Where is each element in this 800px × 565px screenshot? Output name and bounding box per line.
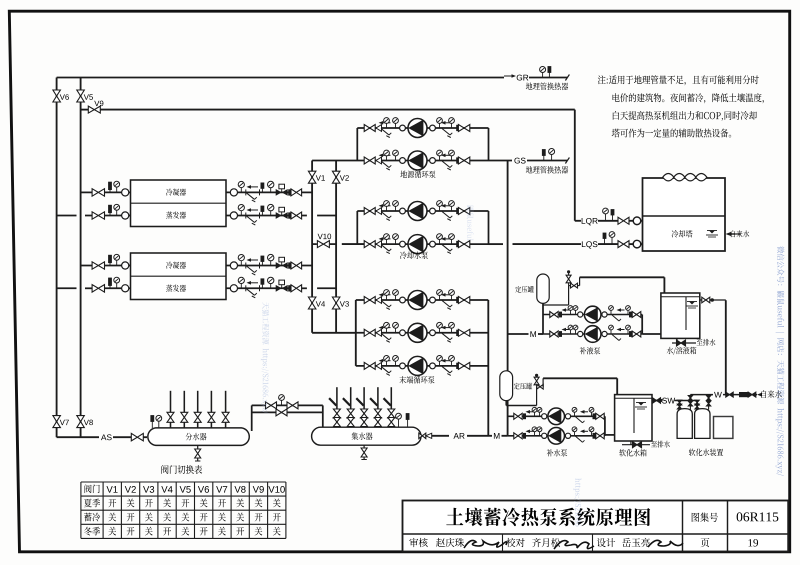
wire left riser B (V5/V8)	[80, 78, 82, 438]
label evaporator 1	[166, 211, 172, 218]
wire bypass riser left	[251, 405, 253, 431]
wire G5 row1 pipe	[508, 415, 605, 417]
node GS label	[514, 158, 519, 164]
softener cylinder 2	[695, 409, 710, 439]
solution tank drain	[676, 338, 678, 343]
valve V9	[88, 106, 94, 113]
wire condenser2 outlet piping	[226, 265, 291, 267]
wire G2 row2 pipe	[364, 243, 488, 245]
label valve switch table title	[161, 465, 168, 474]
flexible joint LQR	[629, 220, 643, 222]
valve table row 夏季	[84, 499, 92, 508]
valve V2	[332, 171, 340, 177]
valve V3	[332, 297, 340, 303]
signature checker	[554, 541, 594, 549]
wire G5 right vertical	[604, 416, 606, 436]
wire tank2 to safety line	[505, 400, 507, 405]
wire evaporator1 inlet piping	[57, 215, 77, 217]
wire evaporator2 inlet piping	[57, 287, 77, 289]
float valve (solution tank)	[700, 299, 726, 301]
wire M line to G4	[508, 333, 529, 335]
gauge on GR line	[542, 72, 544, 78]
label makeup water pumps	[547, 449, 553, 456]
wire G4 left header	[542, 304, 544, 335]
cooling tower box	[643, 178, 726, 251]
pump branch G3-1 terminal loop pump	[364, 297, 370, 304]
tap water inlet to tower	[731, 233, 741, 235]
label cooling water pumps	[400, 251, 407, 259]
wire condenser1 outlet piping	[226, 191, 291, 193]
label tap water (W line)	[761, 390, 766, 398]
label V1	[316, 175, 321, 180]
softener cyl2 stubs	[696, 401, 698, 410]
softener cylinder 1	[677, 409, 692, 439]
valve V10	[317, 241, 323, 248]
label ground HX (GS)	[526, 166, 533, 173]
wire G3 right vertical to AR	[487, 300, 489, 436]
wire G1 row2 pipe	[364, 160, 488, 162]
wire SW line	[652, 400, 663, 402]
wire W line	[690, 394, 713, 396]
label reviewer	[409, 538, 418, 547]
pressure tank 1	[537, 274, 549, 303]
thermometer on collector	[407, 420, 409, 428]
wire G2 row1 pipe	[357, 210, 488, 212]
wire V2 vertical	[335, 161, 337, 333]
pump branch G3-2 terminal loop pump	[364, 329, 370, 336]
softener cyl1 stubs	[679, 401, 681, 410]
valve V1	[308, 171, 316, 177]
wire AR line	[419, 435, 426, 437]
flexible joint LQS	[629, 243, 643, 245]
label softener unit	[689, 449, 696, 456]
gauge on GS line	[551, 154, 553, 161]
wire G4 row1 pipe	[543, 314, 642, 316]
label V6	[60, 94, 65, 99]
wire float to W line	[725, 300, 727, 394]
label atlas number 06R115	[737, 512, 743, 521]
gauge on LQR line	[605, 213, 607, 221]
label evaporator 2	[166, 285, 172, 292]
label distributor	[186, 433, 193, 441]
wire G4 row2 to tank	[642, 333, 661, 335]
label page number 19	[748, 539, 752, 546]
note text	[598, 75, 606, 84]
wire G2 left vertical	[356, 211, 358, 244]
label to drain (softened tank)	[651, 441, 657, 447]
wire G1 right vertical	[488, 128, 490, 161]
label ground HX (GR)	[526, 83, 533, 90]
valve V4	[308, 297, 316, 303]
label water/solution tank	[667, 347, 674, 354]
wire V1 vertical	[311, 161, 313, 333]
thermometer on LQS line	[604, 239, 606, 245]
pump branch G5-2 makeup water pump	[514, 433, 518, 439]
label V2	[340, 175, 345, 180]
water meter on W line	[726, 392, 730, 397]
node GR label	[517, 75, 522, 81]
thermometer on distributor	[151, 422, 153, 429]
valve bypass 1b (PD valve)	[287, 402, 293, 409]
label condenser 2	[166, 262, 172, 269]
label pressure tank 2	[514, 383, 520, 390]
node M label (G4)	[530, 331, 536, 337]
wire G2 feed after gap	[342, 243, 365, 245]
label checker	[506, 538, 515, 547]
safety vent cluster G5	[536, 376, 538, 387]
pump branch G1-1 ground loop pump	[364, 125, 370, 132]
wire G1 left vertical	[356, 128, 358, 161]
watermark vertical right (blue)	[776, 246, 785, 476]
valve bypass 2	[276, 409, 282, 416]
wire top line to solution tank	[580, 276, 665, 278]
wire GS line	[489, 160, 513, 162]
valve on AS line	[131, 433, 137, 441]
valve on LQS line	[618, 241, 624, 248]
thermometer on GS line	[543, 156, 545, 161]
end tick GS	[565, 158, 569, 164]
label V4	[316, 301, 321, 306]
softened tank drain	[630, 441, 632, 445]
watermark vertical mid (blue)	[573, 478, 581, 526]
valve switch table grid	[81, 481, 286, 483]
tap water arrow (W line)	[757, 393, 762, 397]
collector risers	[336, 387, 338, 427]
valve bypass 1a	[266, 402, 272, 409]
distributor risers	[170, 391, 172, 428]
label V10	[318, 234, 323, 239]
wire vertical to LQR	[574, 110, 576, 221]
softened water tank	[615, 395, 652, 441]
wire top line to softened tank	[543, 377, 617, 379]
pump branch G2-1 cooling water pump	[364, 208, 370, 215]
softener salt box	[714, 417, 733, 439]
level gauge in solution tank	[685, 297, 687, 330]
pressure tank 2	[500, 371, 513, 401]
wire G4 row2 pipe	[543, 333, 642, 335]
wire long vertical make-up line	[507, 161, 509, 372]
label collector	[352, 432, 359, 440]
wire bypass riser right	[322, 405, 324, 427]
wire G4 right vertical	[641, 315, 643, 335]
wire AR to M to long vertical	[489, 435, 493, 437]
node AS label	[101, 434, 106, 440]
wire G3 row2 pipe	[356, 332, 489, 334]
wire V9 line	[81, 109, 89, 111]
pump branch G4-1 makeup liquid pump	[550, 312, 554, 318]
wire GR top line	[57, 77, 504, 79]
label makeup liquid pumps	[580, 347, 586, 354]
flow arrow on GR line	[504, 75, 512, 77]
label designer	[597, 538, 606, 547]
label pressure tank 1	[515, 286, 521, 293]
valve V6	[53, 90, 61, 96]
label cooling tower	[672, 230, 679, 238]
label drawing title	[446, 508, 463, 525]
chiller unit 2 box	[131, 253, 227, 300]
distributor vessel	[148, 428, 249, 446]
wire condenser2 inlet piping	[81, 265, 93, 267]
wire G3 row3 pipe	[356, 365, 489, 367]
label V7	[60, 420, 65, 425]
label atlas no field	[692, 513, 700, 522]
wire condenser1 inlet piping	[81, 191, 93, 193]
wire LQR line	[575, 220, 581, 222]
watermark vertical upper-mid (blue)	[467, 205, 474, 240]
gauge on bypass	[281, 400, 283, 406]
end tick GR	[565, 75, 569, 81]
signature designer	[648, 540, 683, 547]
wire G5 row2 pipe (AR continuation)	[508, 435, 605, 437]
node W label	[714, 392, 722, 398]
label condenser 1	[166, 188, 172, 195]
valve V5	[77, 90, 85, 96]
wire LQS line	[489, 243, 504, 245]
level gauge in softened tank	[633, 398, 635, 433]
wire G3 row1 pipe	[356, 299, 489, 301]
label softened water tank	[619, 449, 626, 456]
node LQR label	[582, 218, 586, 224]
cooling tower fans	[663, 174, 674, 181]
pump branch G3-3 terminal loop pump	[364, 362, 370, 369]
water level symbol in tower	[707, 230, 717, 232]
label to drain (solution tank)	[697, 339, 703, 345]
distributor drain valve	[197, 445, 199, 461]
label tap water (tower)	[731, 230, 735, 237]
chiller unit 1 box	[131, 180, 227, 227]
label V8	[84, 420, 89, 425]
label terminal loop pumps	[399, 376, 406, 384]
wire header V1-V2-pumps	[312, 160, 364, 162]
title block frame	[403, 501, 789, 552]
valve V7	[53, 416, 61, 422]
wire evaporator1 outlet piping	[226, 215, 291, 217]
pump branch G5-1 makeup water pump	[514, 413, 518, 419]
pump branch G1-2 ground loop pump	[364, 157, 370, 164]
gauge on collector	[398, 418, 400, 427]
wire G3 left vertical	[355, 300, 357, 366]
wire G1 row1 pipe	[357, 127, 488, 129]
wire bypass line 1	[252, 404, 323, 406]
wire evaporator2 outlet piping	[226, 287, 291, 289]
node AR label	[453, 433, 458, 439]
valve table row 冬季	[84, 527, 92, 536]
wire bypass line 2	[252, 411, 323, 413]
signature reviewer	[464, 540, 507, 548]
gauge on LQS line	[611, 237, 613, 245]
label ground loop pumps	[400, 171, 407, 178]
gauge on distributor	[158, 420, 160, 428]
collector drain valve	[363, 445, 365, 459]
node SW label	[662, 398, 667, 404]
label V9	[94, 101, 99, 106]
valve V8	[77, 416, 85, 422]
water/solution tank	[661, 293, 700, 338]
valve on LQR line	[618, 217, 624, 224]
node LQS label	[582, 241, 586, 247]
watermark vertical middle-left (blue)	[261, 302, 269, 413]
node M label (AR)	[494, 433, 500, 439]
wire left riser A (V6/V7)	[56, 78, 58, 438]
wire G2 right vertical	[488, 211, 490, 244]
pump branch G4-2 makeup liquid pump	[550, 331, 554, 337]
label page field	[701, 538, 710, 547]
wire V10 crossbar	[312, 243, 317, 245]
wire G5 to softened tank	[605, 434, 615, 436]
valve switch table header row	[85, 484, 92, 493]
thermometer on LQR line	[612, 215, 614, 221]
valve table row 蓄冷	[84, 513, 92, 522]
wire AS line	[57, 436, 99, 438]
wire G3 feed crossbar	[312, 332, 356, 334]
thermometer on GR line	[548, 73, 550, 78]
collector vessel	[312, 427, 421, 445]
label V5	[84, 94, 89, 99]
safety vent cluster G4	[568, 273, 570, 286]
pump branch G2-2 cooling water pump	[364, 241, 370, 248]
label V3	[340, 301, 345, 306]
